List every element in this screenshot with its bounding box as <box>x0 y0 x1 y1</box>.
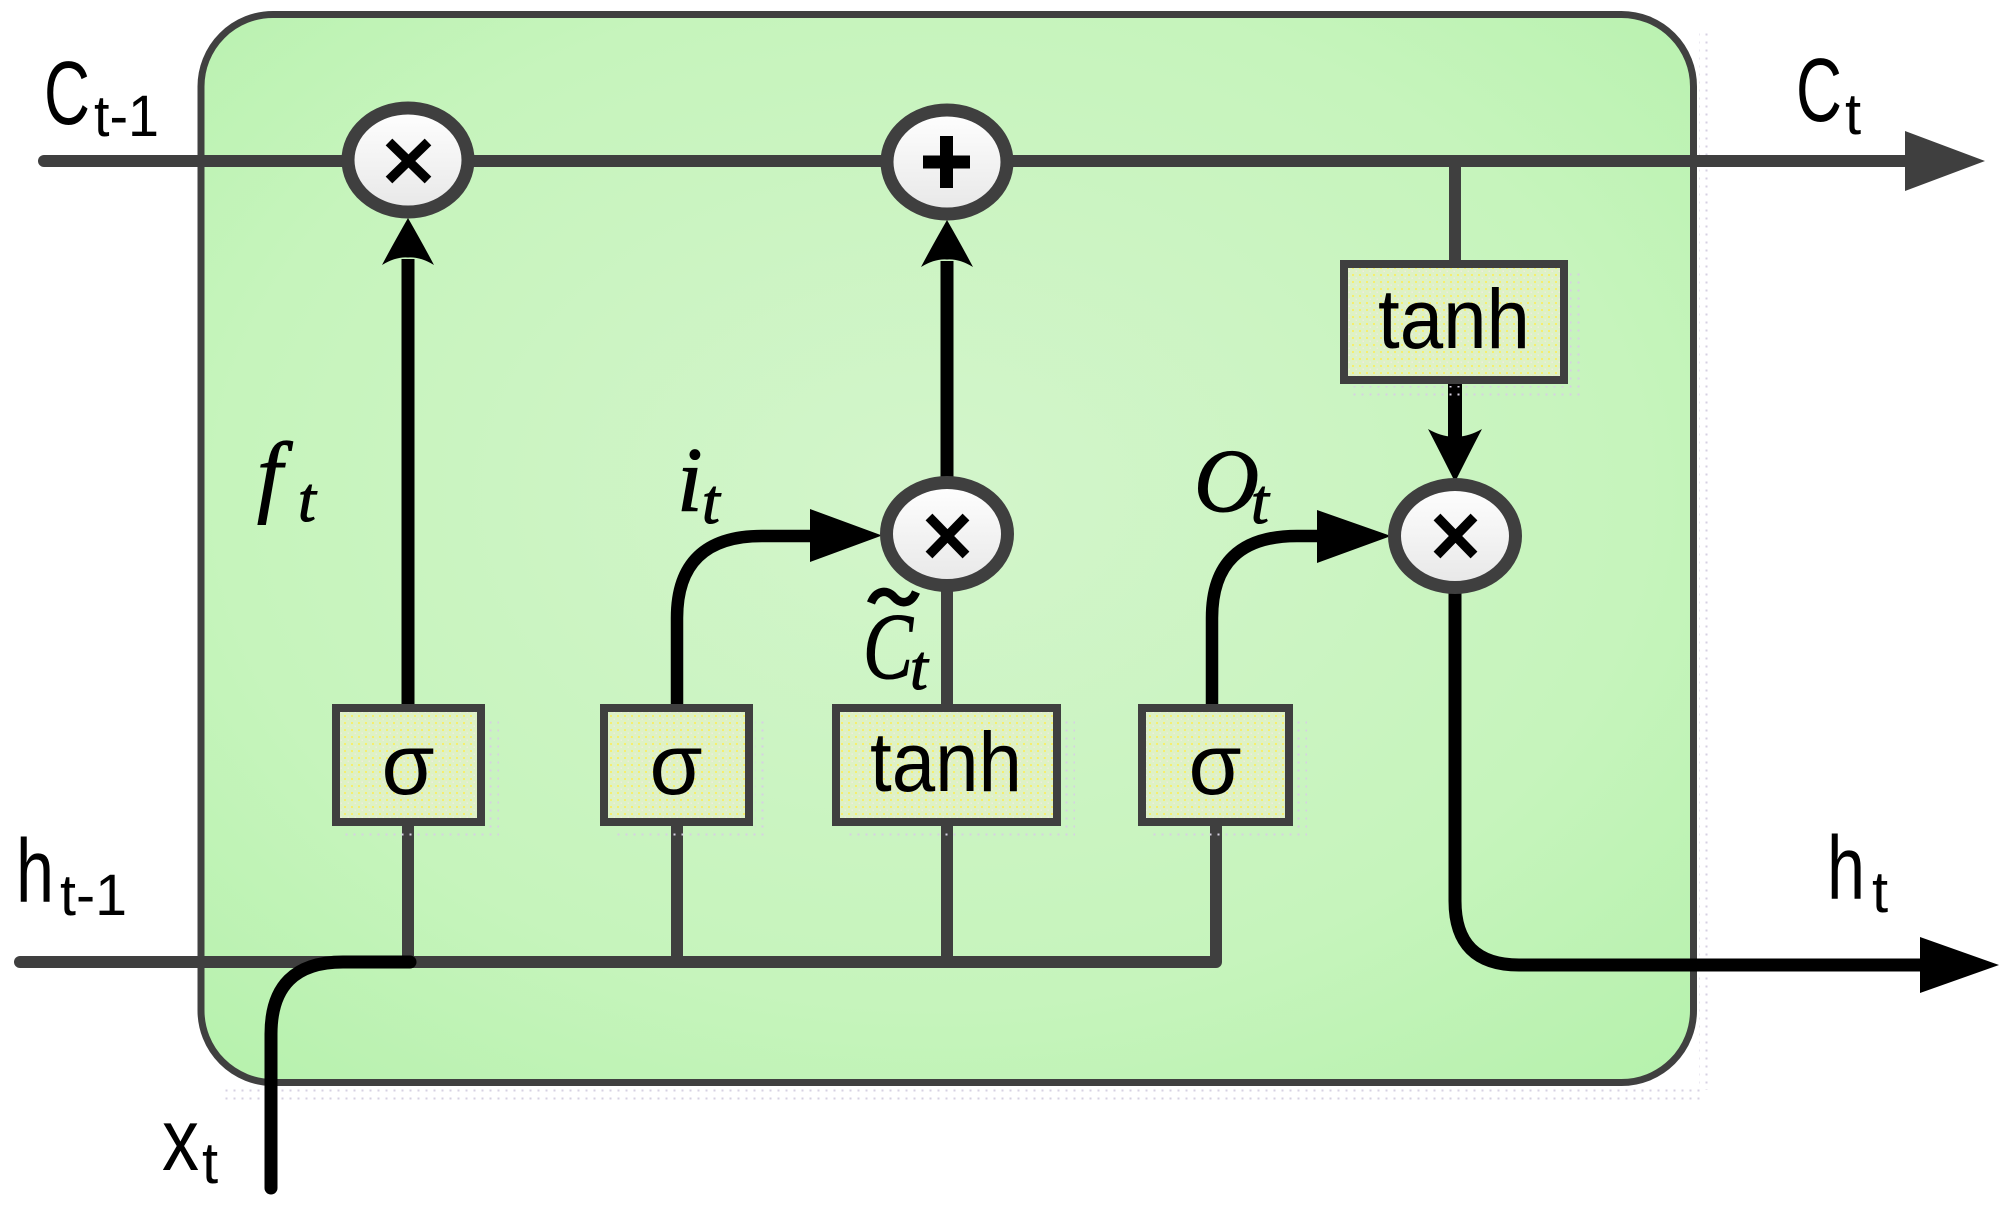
svg-text:tanh: tanh <box>870 715 1022 809</box>
svg-text:t-1: t-1 <box>94 84 159 149</box>
svg-text:σ: σ <box>1188 717 1241 813</box>
svg-text:t: t <box>1872 860 1888 925</box>
svg-text:tanh: tanh <box>1378 272 1530 366</box>
svg-text:σ: σ <box>649 717 702 813</box>
svg-text:t-1: t-1 <box>60 863 127 928</box>
svg-text:h: h <box>1827 819 1865 919</box>
svg-text:t: t <box>1845 82 1861 147</box>
svg-text:t: t <box>298 464 318 535</box>
svg-text:C: C <box>44 44 90 144</box>
svg-text:h: h <box>16 822 54 922</box>
svg-text:t: t <box>1251 466 1271 537</box>
svg-text:O: O <box>1194 432 1259 531</box>
svg-text:t: t <box>702 466 722 537</box>
svg-text:C: C <box>863 595 914 699</box>
svg-text:i: i <box>677 429 703 531</box>
svg-text:t: t <box>910 632 930 703</box>
svg-text:C: C <box>1796 41 1842 141</box>
svg-text:σ: σ <box>381 717 434 813</box>
svg-text:x: x <box>162 1090 199 1189</box>
svg-text:t: t <box>202 1131 218 1196</box>
